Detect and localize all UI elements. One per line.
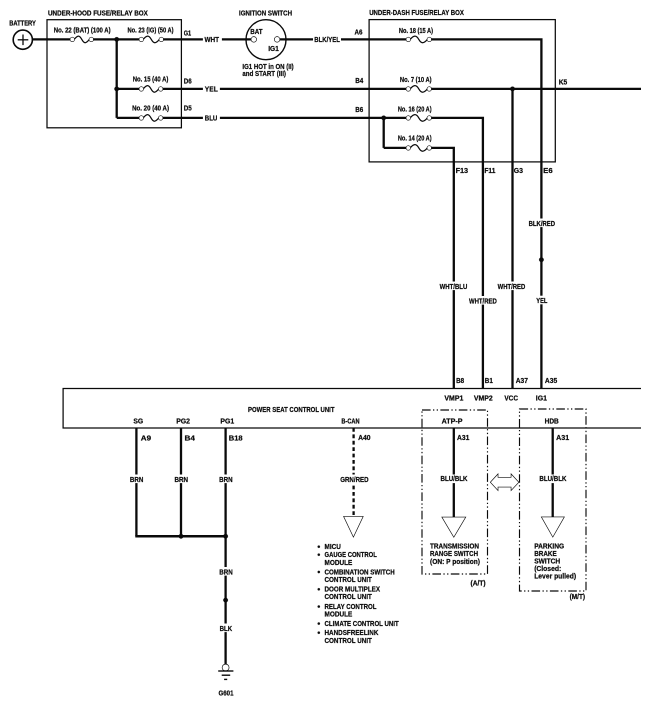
svg-text:VMP1: VMP1 [444, 396, 463, 403]
svg-text:IG1: IG1 [536, 396, 547, 403]
svg-text:G601: G601 [219, 691, 234, 698]
svg-text:(ON: P position): (ON: P position) [430, 559, 480, 566]
svg-text:BLK/YEL: BLK/YEL [314, 37, 340, 44]
svg-text:D5: D5 [184, 106, 192, 113]
svg-text:D6: D6 [184, 79, 192, 86]
svg-text:RANGE SWITCH: RANGE SWITCH [430, 551, 478, 558]
svg-text:CLIMATE CONTROL UNIT: CLIMATE CONTROL UNIT [325, 621, 400, 628]
svg-text:BRAKE: BRAKE [534, 551, 557, 558]
svg-text:HANDSFREELINK: HANDSFREELINK [325, 630, 379, 637]
svg-text:BLK: BLK [220, 626, 233, 633]
svg-text:SG: SG [133, 418, 143, 425]
svg-text:WHT/RED: WHT/RED [498, 284, 526, 291]
svg-text:PG1: PG1 [220, 418, 234, 425]
svg-text:IG1 HOT in ON (II): IG1 HOT in ON (II) [242, 64, 293, 71]
svg-text:DOOR MULTIPLEX: DOOR MULTIPLEX [325, 587, 381, 594]
svg-text:GAUGE CONTROL: GAUGE CONTROL [325, 552, 378, 559]
svg-text:BLK/RED: BLK/RED [529, 221, 556, 228]
svg-text:B4: B4 [355, 78, 363, 85]
svg-text:(Closed:: (Closed: [534, 566, 561, 573]
svg-text:CONTROL UNIT: CONTROL UNIT [325, 594, 373, 601]
svg-text:B6: B6 [355, 107, 363, 114]
svg-text:A6: A6 [355, 29, 363, 36]
svg-text:No. 14 (20 A): No. 14 (20 A) [398, 135, 432, 142]
svg-text:PARKING: PARKING [534, 543, 565, 550]
svg-text:Lever pulled): Lever pulled) [534, 574, 576, 581]
svg-text:BLU/BLK: BLU/BLK [441, 476, 468, 483]
svg-text:BLU/BLK: BLU/BLK [539, 476, 566, 483]
svg-text:CONTROL UNIT: CONTROL UNIT [325, 638, 373, 645]
svg-text:A31: A31 [556, 435, 569, 442]
svg-text:B18: B18 [229, 436, 243, 443]
svg-text:UNDER-DASH FUSE/RELAY BOX: UNDER-DASH FUSE/RELAY BOX [369, 10, 464, 17]
svg-text:G3: G3 [514, 168, 523, 175]
svg-text:TRANSMISSION: TRANSMISSION [430, 543, 479, 550]
svg-text:POWER SEAT CONTROL UNIT: POWER SEAT CONTROL UNIT [248, 407, 335, 414]
svg-text:(A/T): (A/T) [471, 581, 486, 588]
svg-text:BAT: BAT [250, 29, 263, 36]
svg-text:SWITCH: SWITCH [534, 558, 560, 565]
svg-text:ATP-P: ATP-P [442, 418, 463, 425]
svg-text:MICU: MICU [325, 544, 341, 551]
svg-text:WHT: WHT [205, 37, 220, 44]
svg-text:B-CAN: B-CAN [341, 418, 359, 425]
svg-text:VCC: VCC [504, 396, 518, 403]
svg-text:A40: A40 [358, 435, 371, 442]
svg-text:BLU: BLU [205, 116, 218, 123]
svg-text:B1: B1 [485, 378, 493, 385]
svg-text:F13: F13 [456, 168, 469, 175]
svg-text:A31: A31 [457, 435, 470, 442]
svg-text:GRN/RED: GRN/RED [340, 477, 368, 484]
svg-text:CONTROL UNIT: CONTROL UNIT [325, 577, 373, 584]
svg-text:YEL: YEL [205, 87, 219, 94]
svg-text:No. 22 (BAT) (100 A): No. 22 (BAT) (100 A) [54, 27, 111, 34]
svg-text:No. 18 (15 A): No. 18 (15 A) [399, 28, 433, 35]
svg-text:No. 16 (20 A): No. 16 (20 A) [398, 107, 432, 114]
svg-text:BATTERY: BATTERY [9, 21, 36, 28]
svg-text:COMBINATION SWITCH: COMBINATION SWITCH [325, 569, 395, 576]
svg-text:(M/T): (M/T) [570, 594, 586, 601]
svg-text:WHT/RED: WHT/RED [469, 298, 497, 305]
svg-text:E6: E6 [543, 168, 553, 175]
svg-text:F11: F11 [484, 168, 495, 175]
svg-text:MODULE: MODULE [325, 560, 353, 567]
svg-text:WHT/BLU: WHT/BLU [440, 284, 468, 291]
svg-text:IG1: IG1 [268, 46, 279, 53]
svg-text:No. 7 (10 A): No. 7 (10 A) [400, 77, 432, 84]
svg-text:RELAY CONTROL: RELAY CONTROL [325, 604, 378, 611]
svg-text:BRN: BRN [175, 477, 189, 484]
svg-text:A37: A37 [516, 378, 528, 385]
svg-text:UNDER-HOOD FUSE/RELAY BOX: UNDER-HOOD FUSE/RELAY BOX [48, 10, 148, 17]
svg-text:IGNITION SWITCH: IGNITION SWITCH [239, 10, 292, 17]
svg-text:No. 15 (40 A): No. 15 (40 A) [133, 77, 169, 84]
svg-text:BRN: BRN [219, 570, 233, 577]
svg-text:A9: A9 [141, 436, 151, 443]
svg-text:B4: B4 [185, 436, 196, 443]
svg-text:YEL: YEL [536, 298, 548, 305]
svg-text:B8: B8 [456, 378, 464, 385]
svg-text:No. 20 (40 A): No. 20 (40 A) [132, 106, 169, 113]
svg-text:G1: G1 [184, 30, 192, 37]
svg-text:BRN: BRN [130, 477, 144, 484]
svg-text:A35: A35 [545, 378, 557, 385]
svg-text:No. 23 (IG) (50 A): No. 23 (IG) (50 A) [128, 27, 174, 34]
svg-text:BRN: BRN [219, 477, 233, 484]
svg-text:and START (III): and START (III) [242, 71, 286, 78]
svg-text:PG2: PG2 [176, 418, 190, 425]
svg-text:HDB: HDB [545, 418, 559, 425]
svg-text:VMP2: VMP2 [474, 396, 493, 403]
svg-text:K5: K5 [559, 80, 568, 87]
svg-text:MODULE: MODULE [325, 611, 353, 618]
